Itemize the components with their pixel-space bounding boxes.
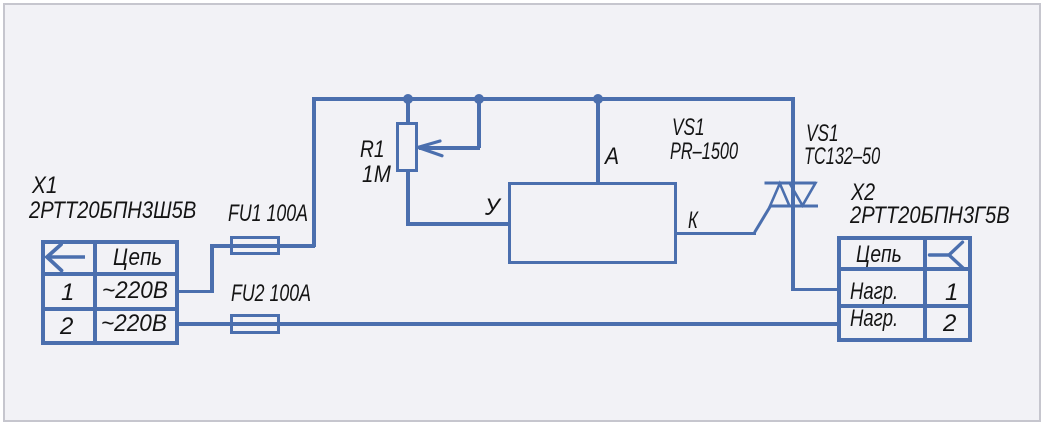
label X1 bbox=[32, 174, 58, 198]
X1 cell: Цепь bbox=[113, 246, 162, 270]
label У pin bbox=[485, 196, 500, 220]
X2 cell: pin 1 bbox=[945, 281, 958, 305]
label X2 bbox=[851, 181, 875, 205]
wire: FU1 horizontal segment bbox=[210, 244, 315, 248]
label X1 part number bbox=[29, 199, 196, 223]
connector X1 table bbox=[41, 240, 179, 345]
X1 row line 1 bbox=[41, 272, 179, 276]
wire: triac bottom to X2 pin 1 bbox=[791, 288, 837, 292]
label A pin bbox=[605, 145, 619, 169]
wire: R1 top lead bbox=[406, 97, 410, 125]
label TC132-50 bbox=[804, 145, 880, 169]
label К pin bbox=[688, 209, 698, 233]
label R1 bbox=[360, 138, 385, 162]
X2 cell: Нагр. row2 bbox=[850, 307, 898, 331]
X2 cell: Цепь bbox=[856, 243, 902, 267]
X1 cell: pin 2 bbox=[60, 315, 73, 339]
X1 cell: pin 1 bbox=[61, 281, 74, 305]
X2 cell: pin 2 bbox=[943, 312, 956, 336]
wire: R1 bottom to block У input bbox=[406, 222, 508, 226]
wire: stub up from X1 pin 1 bbox=[210, 244, 214, 293]
fuse FU2 bbox=[230, 314, 280, 334]
wire: FU2 long horizontal from X1 pin 2 to X2 pin 2 bbox=[179, 322, 837, 326]
X1 cell: ~220В row2 bbox=[101, 312, 167, 336]
fuse FU1 bbox=[230, 236, 280, 255]
junction dot on bus at A lead bbox=[593, 94, 603, 104]
label X2 part number bbox=[850, 204, 1010, 228]
X2 socket fork symbol bbox=[929, 241, 969, 271]
label FU1 100A bbox=[228, 202, 308, 226]
X1 column divider bbox=[93, 240, 97, 345]
wire: top bus bbox=[312, 97, 794, 101]
label 1M value bbox=[362, 163, 391, 187]
X1 plug arrow bbox=[44, 240, 89, 274]
connector X2 table bbox=[837, 236, 972, 342]
wire: wiper horizontal bbox=[419, 146, 480, 150]
junction dot on bus at wiper bbox=[474, 94, 484, 104]
junction dot on bus at R1 bbox=[403, 94, 413, 104]
wire: triac vertical branch bbox=[791, 97, 795, 291]
regulator block PR-1500 bbox=[508, 182, 677, 264]
wire: K output horizontal bbox=[676, 232, 756, 236]
wire: left riser to FU1 bbox=[312, 97, 316, 247]
label FU2 100A bbox=[231, 282, 311, 306]
wire: X1 pin 1 stub horizontal bbox=[179, 290, 213, 294]
wire: A lead from bus to block bbox=[596, 97, 600, 184]
X2 cell: Нагр. row1 bbox=[850, 280, 898, 304]
wire: R1 bottom lead bbox=[406, 170, 410, 225]
label VS1 (block) bbox=[672, 116, 705, 140]
X2 column divider bbox=[923, 236, 927, 342]
X2 row line 2 bbox=[837, 304, 972, 308]
label VS1 (triac) bbox=[806, 122, 839, 146]
wire: wiper riser bbox=[477, 97, 481, 148]
label PR-1500 bbox=[670, 140, 738, 164]
X1 row line 2 bbox=[41, 307, 179, 311]
resistor R1 body bbox=[396, 122, 418, 172]
X1 cell: ~220В row1 bbox=[102, 279, 168, 303]
triac VS1 symbol bbox=[745, 175, 835, 240]
R1 wiper arrowhead bbox=[414, 133, 450, 163]
X2 row line 1 bbox=[837, 267, 972, 271]
